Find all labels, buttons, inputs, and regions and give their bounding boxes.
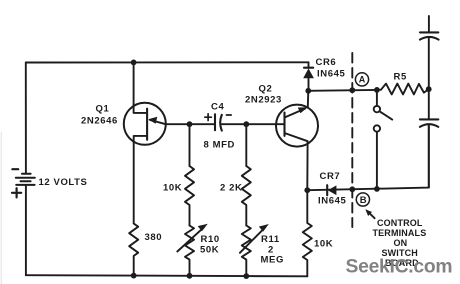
label plus C4 — [205, 114, 212, 121]
node A circle label — [355, 73, 368, 86]
switch contact circle top — [374, 106, 380, 112]
wire A line horizontal — [308, 89, 377, 92]
potentiometer R11 arrow — [240, 228, 265, 253]
wire right vertical lower — [428, 125, 430, 188]
svg-text:TERMINALS: TERMINALS — [373, 228, 427, 238]
node dot bottom under 10K — [187, 273, 193, 279]
transistor Q2 emitter lead with arrow — [285, 109, 306, 118]
resistor 2.2K — [242, 166, 251, 226]
node dot switch top branch — [374, 87, 380, 93]
wire top horizontal — [26, 61, 309, 63]
wire Q2 base junction down — [245, 124, 247, 166]
node dot B terminal on dashed line — [349, 186, 355, 192]
svg-text:A: A — [359, 75, 366, 85]
svg-text:IN645: IN645 — [317, 69, 345, 80]
diode CR7 IN645 — [326, 185, 328, 195]
svg-text:8 MFD: 8 MFD — [204, 140, 236, 151]
wire left vertical upper (to battery) — [25, 63, 27, 174]
transistor Q1 base1 lead — [134, 136, 147, 224]
wire right vertical top stub — [428, 16, 430, 32]
wire emitter junction to C4 — [190, 123, 216, 125]
wire left vertical lower (battery to bottom) — [25, 185, 27, 275]
capacitor C4 left plate — [214, 114, 216, 130]
svg-text:B: B — [360, 195, 367, 206]
transistor Q1 emitter arrowhead — [148, 117, 157, 124]
transistor Q2 2N2923 circle — [276, 105, 318, 147]
capacitor lower right curved plate — [420, 124, 438, 127]
svg-text:IN645: IN645 — [318, 196, 346, 207]
node dot Q2 collector junction — [304, 187, 310, 193]
capacitor C4 right curved plate — [220, 115, 222, 131]
potentiometer R10 50K zigzag — [185, 226, 194, 276]
svg-text:10K: 10K — [163, 183, 182, 194]
wire B line horizontal — [307, 126, 429, 190]
transistor Q1 emitter lead — [150, 120, 190, 124]
resistor 380 — [129, 224, 138, 276]
svg-text:12 VOLTS: 12 VOLTS — [39, 177, 88, 188]
node junction dot top — [131, 60, 137, 66]
diode CR6 IN645 — [308, 62, 310, 67]
switch contact circle bottom — [374, 125, 380, 131]
transistor Q2 base bar — [283, 113, 285, 136]
node dot Q1 emitter junction — [187, 121, 193, 127]
node dot right cap junction — [426, 86, 432, 92]
battery minus sign — [12, 168, 18, 170]
svg-text:2 2K: 2 2K — [220, 183, 242, 194]
wire C4 to Q2 base — [222, 123, 285, 125]
svg-text:SeekIC.com: SeekIC.com — [346, 257, 453, 278]
node B circle label — [356, 193, 369, 206]
wire Q2 emitter to CR6 node — [307, 91, 310, 107]
label minus C4 — [226, 114, 231, 116]
svg-text:Q1: Q1 — [96, 104, 110, 115]
svg-text:ON: ON — [394, 238, 408, 248]
resistor 10K right — [303, 190, 312, 276]
wire switch bottom to B line — [376, 132, 378, 189]
transistor Q1 2N2646 UJT circle — [124, 103, 166, 145]
scan artifact left edge — [0, 132, 2, 284]
svg-text:R11: R11 — [261, 234, 280, 245]
resistor R5 — [377, 84, 429, 95]
switch lever — [380, 111, 393, 119]
svg-text:50K: 50K — [200, 245, 219, 256]
capacitor top right straight plate — [420, 31, 438, 33]
svg-text:CR6: CR6 — [316, 57, 337, 68]
dashed control boundary line — [351, 53, 353, 227]
resistor 10K left — [185, 166, 194, 226]
callout arrow to node B — [368, 211, 375, 218]
wire Q2 collector down to B line — [306, 141, 308, 190]
wire Q1 base2 lead from top wire — [134, 62, 148, 113]
svg-text:380: 380 — [145, 232, 163, 243]
svg-text:CR7: CR7 — [320, 171, 341, 182]
node dot switch bottom branch — [374, 186, 380, 192]
svg-text:MEG: MEG — [261, 255, 284, 266]
node dot Q2 base junction — [243, 121, 249, 127]
switch stub from A line — [376, 90, 378, 106]
svg-text:2N2923: 2N2923 — [245, 95, 282, 106]
wire bottom horizontal — [26, 275, 307, 276]
potentiometer R10 arrow — [177, 227, 204, 251]
transistor Q2 collector lead — [285, 133, 308, 141]
node dot bottom under Q1 — [131, 273, 137, 279]
svg-text:C4: C4 — [211, 102, 224, 113]
potentiometer R11 2 MEG zigzag — [242, 226, 251, 277]
node dot bottom under R11 — [243, 273, 249, 279]
wire right vertical middle — [428, 37, 430, 119]
wire emitter junction down — [189, 124, 191, 166]
svg-text:R5: R5 — [394, 72, 407, 83]
battery plus sign — [12, 188, 21, 197]
battery 12 V — [16, 174, 35, 185]
svg-text:10K: 10K — [314, 239, 333, 250]
node dot CR6 junction — [305, 88, 311, 94]
node dot A terminal on dashed line — [349, 87, 355, 93]
capacitor lower right straight plate — [420, 118, 438, 120]
svg-text:Q2: Q2 — [259, 84, 273, 95]
transistor Q1 base bar — [146, 109, 148, 140]
svg-text:2N2646: 2N2646 — [81, 116, 118, 127]
svg-text:CONTROL: CONTROL — [377, 218, 423, 228]
svg-text:R10: R10 — [201, 234, 220, 245]
capacitor top right curved plate — [420, 37, 439, 40]
